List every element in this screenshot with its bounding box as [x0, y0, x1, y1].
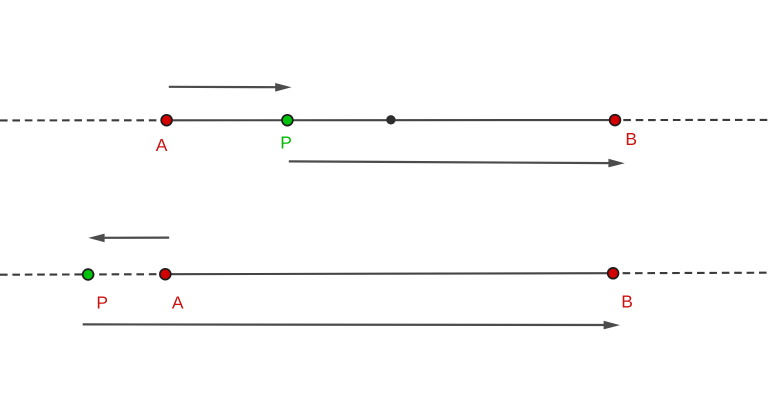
point P (top, green): [282, 115, 293, 126]
point B (top): [610, 115, 621, 126]
segment AB (bottom solid segment): [165, 273, 613, 274]
point A (bottom): [160, 269, 171, 280]
vector u (top small arrow A toward P): [169, 83, 292, 92]
vector z (bottom long arrow P toward B): [83, 321, 620, 330]
vector v (arrow P toward B below top line): [289, 159, 625, 168]
svg-text:P: P: [96, 292, 108, 312]
svg-text:B: B: [625, 129, 637, 149]
point A (top): [161, 115, 172, 126]
midpoint M (dark point between P and B): [386, 115, 395, 124]
svg-text:B: B: [621, 291, 633, 311]
svg-text:A: A: [172, 292, 184, 312]
line g left ray (bottom dashed line through P up to A): [0, 273, 165, 276]
segment AB (top solid segment): [167, 119, 615, 121]
point B (bottom): [608, 268, 619, 279]
vector w (bottom small arrow pointing left above P): [88, 234, 169, 243]
svg-text:A: A: [156, 135, 168, 155]
line f right ray (top dashed line right of B): [623, 119, 768, 121]
line g right ray (bottom dashed line right of B): [623, 272, 768, 275]
point P (bottom, green): [83, 269, 94, 280]
svg-text:P: P: [280, 132, 292, 152]
line f left ray (top dashed line left of A): [0, 119, 167, 121]
